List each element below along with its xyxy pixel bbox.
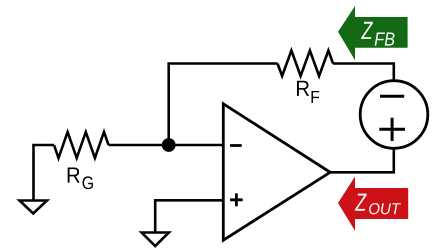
voltage source V1 (test source): [360, 81, 428, 149]
op-amp U1: [223, 104, 330, 240]
voltage source V1 minus terminal mark: [380, 95, 404, 98]
impedance arrow ZFB (green, pointing left): [338, 6, 408, 60]
ground symbol below RG: [20, 201, 48, 214]
resistor RF: [278, 51, 334, 77]
wire: inverting input wire from RG through node to op-amp: [109, 144, 224, 147]
label ZFB: [361, 22, 373, 39]
voltage source V1 plus terminal mark: [379, 118, 405, 141]
wire: feedback riser from inverting node up and across to RF left lead: [169, 64, 278, 146]
op-amp non-inverting input (+) mark: [230, 193, 243, 206]
wire: RF right lead to voltage source top terminal: [333, 64, 394, 83]
wire: RG left lead down to ground: [34, 145, 55, 200]
wire: non-inverting input from op-amp left and down to ground: [155, 200, 223, 232]
label RG: [68, 167, 80, 182]
wire: op-amp output across and up to voltage source bottom terminal: [330, 147, 394, 172]
impedance arrow ZOUT (red, pointing left): [338, 177, 408, 231]
resistor RG: [54, 132, 109, 158]
op-amp inverting input (-) mark: [230, 144, 242, 147]
label ZOUT: [355, 194, 367, 211]
label RF: [297, 81, 309, 96]
ground symbol below non-inverting input: [142, 233, 169, 247]
node: junction dot on inverting input: [162, 138, 176, 152]
